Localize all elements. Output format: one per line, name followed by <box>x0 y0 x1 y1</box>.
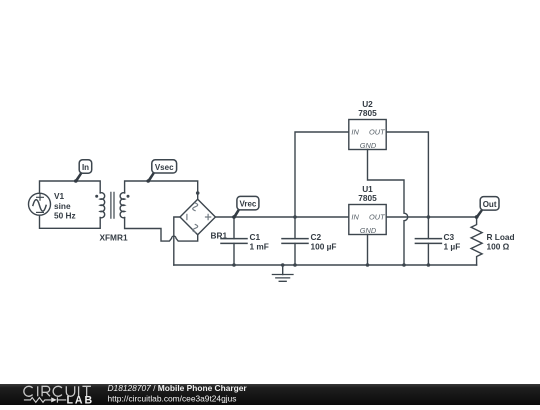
svg-text:50 Hz: 50 Hz <box>54 211 76 221</box>
bridge rectifier BR1 <box>180 199 215 234</box>
svg-text:Vsec: Vsec <box>155 163 174 172</box>
ground symbol <box>272 265 293 281</box>
capacitor C1 <box>221 217 247 265</box>
svg-text:D18128707 / Mobile Phone Charg: D18128707 / Mobile Phone Charger <box>108 383 248 393</box>
ground rail wire <box>174 264 477 266</box>
svg-text:V1: V1 <box>54 191 65 201</box>
wire V1 top to primary <box>40 181 101 193</box>
U2 label <box>358 99 377 118</box>
svg-text:100 Ω: 100 Ω <box>487 242 510 252</box>
svg-text:http://circuitlab.com/cee3a9t2: http://circuitlab.com/cee3a9t24gjus <box>108 394 237 404</box>
svg-text:Out: Out <box>483 200 497 209</box>
junction dot output node <box>475 215 479 219</box>
footer title text <box>108 383 248 404</box>
wire U1 GND to ground rail <box>367 235 369 266</box>
wire secondary top to bridge <box>125 181 198 199</box>
node flag Vrec <box>232 196 259 218</box>
logo resistor-diode doodle <box>24 397 66 402</box>
svg-text:1 mF: 1 mF <box>250 242 269 252</box>
svg-text:XFMR1: XFMR1 <box>99 232 128 242</box>
junction dot C3 top <box>427 215 431 219</box>
regulator U2 <box>349 120 386 150</box>
svg-text:IN: IN <box>351 127 359 136</box>
wire U2 GND down to ground rail <box>368 150 408 266</box>
junction dot C1 top <box>232 215 236 219</box>
V1 value label <box>54 191 76 221</box>
R Load value label <box>487 232 515 251</box>
footer bar <box>0 384 540 405</box>
Vrec rail wire: bridge plus to U1 IN <box>215 216 348 218</box>
C1 value label <box>250 232 269 251</box>
node flag In <box>74 160 92 183</box>
junction dot C3 bottom <box>427 263 431 267</box>
wire U1 OUT to output rail (hops over U2 gnd drop) <box>386 216 476 218</box>
junction dot C2 top <box>293 215 297 219</box>
transformer XFMR1 core <box>111 192 114 218</box>
svg-text:OUT: OUT <box>369 212 385 221</box>
wire C2 node up to U2 IN <box>295 132 349 217</box>
svg-text:In: In <box>82 163 89 172</box>
XFMR1 secondary phase dot <box>127 195 130 198</box>
junction dot bridge top terminal <box>196 191 200 195</box>
transformer XFMR1 secondary winding <box>120 193 124 218</box>
svg-text:Vrec: Vrec <box>239 200 256 209</box>
XFMR1 primary phase dot <box>95 195 98 198</box>
svg-text:7805: 7805 <box>358 193 377 203</box>
transformer XFMR1 primary winding <box>100 193 104 218</box>
node flag Vsec <box>146 160 176 183</box>
junction dot U1 gnd at rail <box>366 263 370 267</box>
svg-text:GND: GND <box>360 141 377 150</box>
node flag Out <box>475 197 499 219</box>
svg-text:100 µF: 100 µF <box>311 242 337 252</box>
C3 value label <box>444 232 461 251</box>
svg-text:sine: sine <box>54 201 71 211</box>
junction dot C2 bottom <box>293 263 297 267</box>
svg-text:1 µF: 1 µF <box>444 242 461 252</box>
U1 label <box>358 184 377 203</box>
junction dot ground <box>281 263 285 267</box>
resistor R Load <box>471 217 482 265</box>
C2 value label <box>311 232 337 251</box>
capacitor C2 <box>282 217 308 265</box>
svg-text:OUT: OUT <box>369 127 385 136</box>
svg-text:IN: IN <box>351 212 359 221</box>
svg-text:LAB: LAB <box>67 395 93 405</box>
wire secondary bottom to bridge AC2 (hops over ground drop) <box>125 218 198 242</box>
junction dot U2 gnd at rail <box>402 263 406 267</box>
svg-text:7805: 7805 <box>358 108 377 118</box>
wire V1 bottom to primary <box>40 215 101 228</box>
CircuitLab logo wordmark CIRCUIT <box>24 386 91 396</box>
junction dot C1 bottom <box>232 263 236 267</box>
regulator U1 <box>349 205 386 235</box>
wire U2 OUT to output node <box>386 132 428 217</box>
capacitor C3 <box>415 217 441 265</box>
wire bridge minus to ground rail <box>174 217 180 265</box>
svg-text:GND: GND <box>360 226 377 235</box>
voltage source V1 <box>29 193 51 215</box>
